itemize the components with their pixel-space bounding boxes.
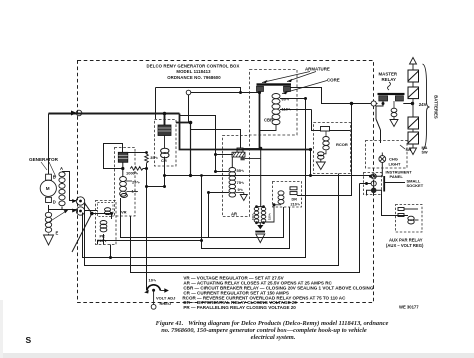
svg-text:AUX PAR RELAY: AUX PAR RELAY: [389, 238, 423, 243]
svg-text:electrical system.: electrical system.: [251, 334, 296, 341]
svg-text:75∿: 75∿: [237, 180, 245, 185]
PR contact inner dashed box: [98, 203, 114, 217]
wire: bottom loop to DR with jog: [98, 241, 202, 245]
svg-text:E: E: [56, 231, 59, 236]
svg-text:(AUX – VOLT REG): (AUX – VOLT REG): [386, 243, 424, 248]
DR box: [273, 182, 302, 208]
svg-text:LIGHT: LIGHT: [389, 161, 402, 166]
wire: heavy line end down to CR output line: [310, 150, 312, 176]
aux par relay box: [396, 205, 423, 233]
DR coil: [278, 191, 284, 204]
VR relay core: [118, 152, 128, 162]
pin 1: [371, 174, 376, 179]
resistor 1000 ohm: [130, 167, 143, 171]
pin 3: [371, 188, 377, 194]
scan edge shading bottom: [0, 353, 474, 358]
wire: AR coil feed from left: [216, 154, 232, 156]
feed arrows into terminals: [72, 199, 76, 203]
wire: VR core top to 35 ohm top: [127, 152, 146, 154]
wire: top small loop L1: [156, 88, 241, 93]
wire: pin3 stub left: [367, 190, 372, 195]
AR ground: [243, 193, 245, 195]
leader arrow to D junction: [45, 212, 66, 225]
svg-text:ARMATURE: ARMATURE: [305, 67, 330, 72]
RCOR shunt rect: [321, 127, 330, 132]
svg-text:PR: PR: [100, 234, 106, 238]
wire: DR contact output to master relay node: [297, 104, 352, 196]
chg light dashed box: [366, 141, 408, 169]
RCOR box: [314, 123, 351, 174]
AR core hatched bar: [232, 152, 245, 160]
CBR box: [250, 70, 298, 136]
wire: AR core stub to coil: [231, 157, 233, 168]
master relay coil ground: [393, 117, 395, 120]
svg-text:60∿: 60∿: [282, 96, 290, 101]
CBR coil: [260, 94, 281, 131]
wire: AR core out loop: [245, 158, 261, 160]
battery bottom arrow to MA SW: [410, 148, 417, 155]
wire: terminal1 branch drop: [84, 203, 86, 207]
wire: 1000 ohm left node into VR coil: [122, 169, 124, 177]
wire: RCOR shunt out right: [330, 130, 351, 132]
svg-text:no. 7968600, 150-ampere genera: no. 7968600, 150-ampere generator contro…: [161, 327, 367, 334]
capacitor bar: [255, 231, 265, 233]
wire: DR node down to paralleling coil pair: [260, 148, 262, 206]
RCOR contact: [318, 152, 324, 159]
AR box: [223, 136, 250, 217]
ground arrow E: [44, 235, 54, 245]
VR box: [115, 148, 136, 217]
AR armature rect: [237, 148, 243, 152]
svg-text:GENERATOR: GENERATOR: [29, 157, 59, 162]
CR relay core: [158, 125, 171, 136]
terminal circle 211: [76, 207, 84, 215]
wire: 35 ohm bottom to 1000 ohm node: [146, 163, 148, 290]
leader lines from GENERATOR label: [41, 162, 47, 170]
PR coil: [100, 221, 107, 232]
svg-text:29∿: 29∿: [132, 179, 140, 184]
wire: volt sense stub: [147, 176, 165, 187]
wire: y92 line circle terminal to CBR left contact: [191, 92, 260, 94]
wire: field coil top to terminal 1: [62, 172, 76, 201]
wire: CBR left contact heavy drop: [259, 92, 261, 150]
wire: blade to chg box: [380, 130, 382, 143]
svg-text:150∿: 150∿: [268, 212, 272, 220]
wire: terminal1 diagonal to junction: [84, 203, 92, 214]
RCOR ground: [320, 159, 322, 162]
master relay coil: [391, 108, 397, 116]
svg-text:RCOR: RCOR: [336, 142, 348, 147]
wire: vertical from L1 down to VR top line: [155, 88, 157, 120]
svg-text:RHEO: RHEO: [160, 301, 172, 306]
wire: generator B lead up to bus: [48, 114, 50, 175]
CBR armature bar: [257, 83, 292, 85]
wire: long vertical to bottom loop F: [190, 123, 192, 176]
svg-text:S: S: [26, 335, 32, 345]
control box outer dashed boundary: [78, 61, 374, 303]
wire: CBR 60 ohm tap: [280, 98, 306, 100]
svg-text:ORDNANCE NO. 7968600: ORDNANCE NO. 7968600: [167, 75, 221, 80]
VR winding coil: [120, 177, 127, 197]
wire: CBR right contact to master relay bus: [291, 88, 378, 104]
title: DELCO REMY GENERATOR CONTROL BOX: [147, 64, 240, 80]
CR box: [155, 120, 177, 167]
wire: x218 drop to AR coil top: [180, 116, 230, 172]
svg-text:AR: AR: [231, 211, 237, 216]
wire: main bus heavy: [49, 113, 180, 115]
svg-text:1000∿: 1000∿: [126, 171, 139, 176]
wire: vertical x188.5 to y130: [188, 95, 190, 123]
paralleling twin coil with 150 ohm windings: [254, 207, 266, 223]
VR contact at bottom: [121, 194, 128, 198]
battery top arrow: [410, 58, 417, 65]
svg-text:24V: 24V: [419, 102, 427, 107]
svg-text:SOCKET: SOCKET: [407, 183, 424, 188]
svg-text:210∿: 210∿: [291, 203, 301, 207]
wire: 110 ohm tap into RCOR shunt: [312, 110, 321, 131]
wire: VR core bottom to 1000 ohm: [122, 162, 124, 168]
svg-text:210∿: 210∿: [97, 239, 107, 243]
feed-through circle on box edge at master relay: [371, 101, 376, 106]
wire: jog vertical from CR output line: [202, 176, 290, 249]
wire: junction to PR top: [92, 214, 112, 220]
wire: switch blade: [376, 119, 381, 130]
wire: field coil bottom stub: [61, 207, 63, 210]
VR tap lines: [126, 180, 132, 182]
hollow ground arrow below bar: [256, 234, 265, 243]
pin 2: [371, 181, 376, 186]
RCOR coil: [323, 137, 329, 150]
PR box: [96, 201, 117, 245]
resistor 35 ohm vertical: [145, 154, 149, 163]
wire: master relay switch branch to chg light: [376, 101, 383, 119]
svg-text:10∿: 10∿: [149, 278, 157, 283]
wire: heavy tap to long vertical: [176, 122, 190, 124]
svg-text:MASTER: MASTER: [379, 72, 398, 77]
svg-text:150∿: 150∿: [251, 212, 255, 220]
batteries: [408, 70, 419, 144]
svg-text:RELAY: RELAY: [382, 77, 397, 82]
connector dashed box on right edge: [364, 173, 382, 195]
DR contact rects: [290, 187, 297, 195]
wire: junction diagonal lead down-left: [72, 214, 92, 253]
svg-text:SW: SW: [406, 148, 412, 152]
svg-text:9∿: 9∿: [238, 187, 244, 192]
svg-text:WE 30177: WE 30177: [399, 305, 419, 310]
wire: AR armature out to node: [243, 147, 261, 149]
twin coil bottom to DR node: [264, 205, 275, 222]
wire: bottom loop D RCOR output: [85, 174, 339, 266]
wire: panel bar to small socket: [385, 182, 406, 184]
wire: CBR 110 ohm tap: [280, 109, 312, 111]
battery interconnects: [412, 64, 414, 148]
svg-text:VR: VR: [121, 209, 127, 214]
svg-text:55∿: 55∿: [237, 168, 245, 173]
svg-text:CR: CR: [161, 158, 167, 163]
sw symbol in chg box: [400, 145, 405, 149]
svg-text:SW: SW: [422, 150, 429, 154]
terminal circle on y92 line: [186, 90, 191, 95]
wire: master relay bus to batteries: [403, 103, 413, 105]
svg-text:DELCO REMY GENERATOR CONTROL B: DELCO REMY GENERATOR CONTROL BOX: [147, 64, 240, 69]
wire: terminal2 into PR contact: [84, 210, 97, 212]
svg-text:DR: DR: [292, 197, 298, 201]
wire: PR coil bottom drop: [103, 234, 105, 245]
legend text block: [182, 276, 373, 310]
AR coil: [229, 168, 236, 198]
svg-text:CBR: CBR: [264, 118, 273, 123]
batteries brace: [423, 64, 430, 150]
wire: bus drop into CR core: [164, 114, 166, 126]
wire: VR core top loop to the left: [104, 144, 123, 169]
svg-text:35∿: 35∿: [150, 155, 158, 160]
svg-text:PR — PARALLELING RELAY CLOSING: PR — PARALLELING RELAY CLOSING VOLTAGE 2…: [183, 305, 296, 310]
svg-text:CORE: CORE: [327, 77, 340, 82]
CR contacts: [161, 148, 169, 158]
svg-text:M: M: [46, 186, 50, 191]
svg-text:BATTERIES: BATTERIES: [434, 95, 439, 119]
wire: lamp to pin1: [374, 162, 383, 176]
svg-text:A: A: [60, 166, 63, 171]
wire: bottom loop F from VR to pin2: [131, 184, 360, 273]
feed-through terminal on left edge (bus): [71, 110, 82, 116]
CBR contact blocks: [257, 86, 291, 91]
svg-text:Figure 41. Wiring diagram fo: Figure 41. Wiring diagram for Delco Prod…: [156, 320, 389, 327]
wire: 60 ohm vertical down left of RCOR to bottom loop C: [83, 99, 306, 258]
filled arrow below twin coil: [257, 225, 263, 229]
master relay contact blocks: [379, 96, 388, 101]
wire: y130 across to x240.7 down to armature bar: [191, 130, 241, 149]
wire: pin3 to aux par relay: [376, 190, 408, 215]
svg-text:MODEL 1118413: MODEL 1118413: [176, 69, 211, 74]
generator series coil on D lead: [45, 210, 51, 233]
svg-text:B: B: [53, 175, 56, 180]
svg-text:VOLT ADJ: VOLT ADJ: [156, 296, 175, 301]
svg-text:D: D: [53, 200, 56, 205]
wire: 35 ohm top stub: [146, 153, 148, 154]
wire: CR contact output long line to pin1: [165, 157, 371, 177]
PR contact: [105, 208, 111, 215]
wire: D lead junction to terminal 2: [49, 205, 77, 210]
master relay armature bar: [378, 93, 405, 95]
svg-text:110∿: 110∿: [282, 107, 292, 112]
CR core lead to contacts: [164, 136, 166, 149]
wire: 1000 ohm to 35 ohm node: [143, 168, 147, 170]
svg-text:PANEL: PANEL: [390, 174, 404, 179]
generator: [40, 174, 56, 202]
wire: bottom loop E: [121, 198, 284, 238]
wire: AR 9ohm tap to drop: [209, 193, 230, 238]
chg lamp: [379, 153, 386, 163]
wire: PR lead down to loop C: [110, 245, 112, 258]
wire: pin2 stub: [360, 183, 372, 185]
wire: heavy branch down right of CR: [180, 114, 311, 150]
terminal circle 201: [76, 197, 84, 205]
